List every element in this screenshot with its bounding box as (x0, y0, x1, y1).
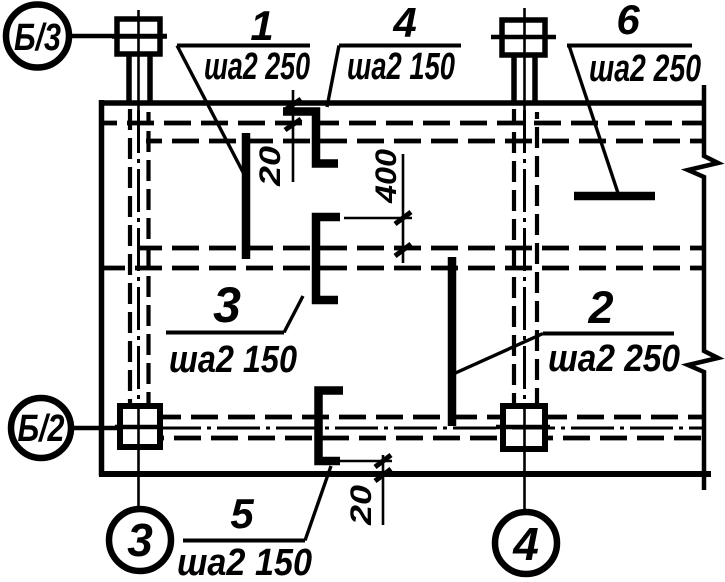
dimension 20 bottom (340, 455, 392, 526)
rebar dashed line middle upper (138, 246, 703, 251)
slab edge top (100, 100, 704, 106)
svg-text:400: 400 (370, 149, 403, 204)
axis bubble Б/3 (6, 5, 69, 68)
axis line 3 (vertical) (137, 10, 140, 509)
svg-text:20: 20 (345, 485, 378, 527)
axis bubble 4 (495, 512, 557, 574)
svg-text:ша2 250: ша2 250 (548, 338, 680, 380)
dimension 400 (344, 149, 412, 263)
rebar bar 1 (242, 133, 251, 259)
callout 6 (шаг 250) (567, 0, 701, 193)
callout 3 (шаг 150) (166, 277, 303, 381)
callout 1 (шаг 250) (177, 2, 310, 176)
bent bar 3 (316, 217, 340, 300)
rebar dashed line bottom lower (162, 436, 502, 441)
svg-text:6: 6 (616, 0, 640, 43)
callout 2 (шаг 250) (451, 282, 680, 380)
svg-text:4: 4 (392, 0, 416, 46)
axis line 4 (vertical) (523, 8, 526, 513)
dimension 20 top (254, 90, 301, 187)
slab edge right with break symbols (688, 85, 718, 490)
svg-text:20: 20 (254, 146, 287, 188)
callout 5 (шаг 150) (177, 466, 331, 582)
rebar dashed line top lower (146, 139, 703, 144)
svg-text:ша2 150: ша2 150 (347, 46, 455, 88)
svg-text:3: 3 (213, 277, 241, 333)
rebar dashed line middle lower (104, 266, 703, 271)
column at Б/2-3 (115, 406, 163, 447)
rebar bar 6 (574, 192, 655, 201)
svg-text:1: 1 (250, 2, 273, 49)
beam dashed line left-left (128, 109, 132, 404)
bent bar 5 (319, 391, 344, 462)
column at Б/3-3 (112, 19, 167, 101)
beam dashed line left-right (146, 112, 150, 404)
svg-text:3: 3 (127, 514, 153, 566)
axis bubble Б/2 (11, 398, 71, 458)
axis line Б/3 (70, 34, 167, 39)
axis bubble 3 (109, 509, 171, 571)
beam dashed line right-right (535, 112, 539, 404)
svg-text:Б/2: Б/2 (18, 408, 65, 450)
svg-text:ша2 150: ша2 150 (169, 339, 297, 381)
bent bar 4 (283, 112, 338, 164)
column at Б/3-4 (491, 20, 556, 101)
svg-text:ша2 250: ша2 250 (204, 46, 310, 88)
svg-text:2: 2 (587, 282, 613, 333)
svg-text:ша2 150: ша2 150 (177, 542, 312, 582)
column at Б/2-4 (496, 406, 550, 449)
rebar bar 2 (448, 257, 457, 426)
slab edge bottom (99, 471, 711, 477)
axis line Б/2 (70, 426, 703, 431)
svg-text:ша2 250: ша2 250 (589, 48, 701, 90)
rebar dashed line bottom upper (162, 415, 502, 420)
rebar dashed line top upper (104, 121, 703, 126)
callout 4 (шаг 150) (327, 0, 461, 107)
svg-text:Б/3: Б/3 (14, 17, 61, 59)
beam dashed line right-left (512, 109, 516, 404)
slab edge left (99, 100, 105, 476)
svg-text:4: 4 (512, 518, 539, 570)
svg-text:5: 5 (230, 490, 254, 537)
